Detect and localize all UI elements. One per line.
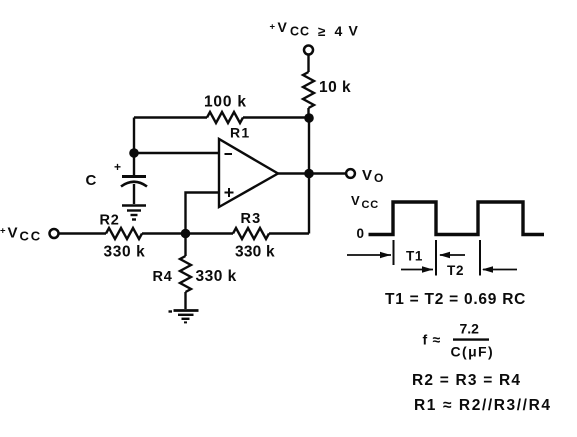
- svg-text:T1 = T2 = 0.69 RC: T1 = T2 = 0.69 RC: [385, 291, 526, 308]
- svg-text:R1 ≈ R2//R3//R4: R1 ≈ R2//R3//R4: [414, 397, 552, 414]
- svg-text:O: O: [374, 171, 383, 185]
- svg-text:R2: R2: [100, 213, 120, 229]
- equation T1 = T2 = 0.69 RC: [385, 291, 526, 308]
- svg-text:R1: R1: [230, 125, 251, 141]
- wire left vertical down to inverting node: [133, 118, 135, 154]
- dimension T1: [347, 240, 465, 265]
- equation R2 = R3 = R4: [412, 372, 521, 389]
- node D (non-inverting input node): [181, 229, 191, 239]
- svg-text:+: +: [270, 22, 276, 33]
- svg-text:V: V: [8, 225, 18, 242]
- svg-text:R2 = R3 = R4: R2 = R3 = R4: [412, 372, 521, 389]
- wire non-inverting input: [186, 193, 220, 234]
- svg-text:≈: ≈: [433, 332, 441, 348]
- svg-text:T2: T2: [447, 263, 464, 278]
- wire op-amp output: [278, 172, 345, 174]
- svg-text:330 k: 330 k: [104, 244, 146, 261]
- wire 10k to node A: [307, 108, 309, 118]
- power terminal +VCC (left): [0, 225, 59, 244]
- svg-text:4: 4: [335, 23, 343, 39]
- power terminal +VCC (top): [270, 19, 359, 55]
- svg-text:CC: CC: [290, 25, 310, 39]
- wire Vcc terminal to 10k: [307, 56, 309, 73]
- ground (below capacitor): [122, 206, 146, 220]
- resistor R1 100k (feedback): [134, 94, 309, 141]
- capacitor C: [86, 153, 148, 204]
- svg-text:R3: R3: [241, 211, 262, 227]
- ground (below R4): [169, 311, 199, 323]
- wire node A to node C to R3 level: [308, 118, 310, 234]
- dimension T2: [401, 240, 517, 278]
- resistor 10k: [303, 72, 351, 108]
- resistor R4 330k: [153, 234, 237, 310]
- output terminal VO: [346, 167, 383, 185]
- svg-text:f: f: [423, 332, 428, 348]
- node A (top junction): [304, 113, 314, 123]
- svg-text:V: V: [349, 23, 359, 39]
- svg-text:0: 0: [357, 226, 365, 241]
- op-amp U1: [219, 139, 278, 207]
- waveform square wave: [351, 193, 544, 241]
- svg-text:T1: T1: [406, 249, 423, 264]
- svg-text:CC: CC: [20, 229, 42, 244]
- svg-text:CC: CC: [362, 199, 380, 211]
- equation f = 7.2 / C(uF): [423, 321, 495, 360]
- svg-text:V: V: [351, 193, 360, 208]
- svg-text:7.2: 7.2: [460, 321, 480, 337]
- svg-text:V: V: [362, 167, 372, 184]
- svg-text:R4: R4: [153, 269, 173, 285]
- svg-text:10 k: 10 k: [319, 79, 351, 96]
- svg-text:C: C: [86, 172, 97, 189]
- resistor R3 330k: [186, 211, 310, 261]
- svg-text:330 k: 330 k: [196, 268, 237, 285]
- svg-text:≥: ≥: [318, 24, 326, 39]
- svg-text:330 k: 330 k: [235, 244, 275, 261]
- node B (inverting input node): [129, 148, 139, 158]
- wire inverting input: [134, 152, 219, 154]
- svg-text:+: +: [0, 226, 6, 237]
- node C (output node): [304, 169, 314, 179]
- svg-text:C(μF): C(μF): [451, 343, 495, 359]
- svg-text:V: V: [278, 19, 288, 35]
- resistor R2 330k: [60, 213, 186, 261]
- equation R1 = R2//R3//R4: [414, 397, 552, 414]
- svg-text:100 k: 100 k: [204, 94, 247, 111]
- svg-text:+: +: [114, 160, 121, 174]
